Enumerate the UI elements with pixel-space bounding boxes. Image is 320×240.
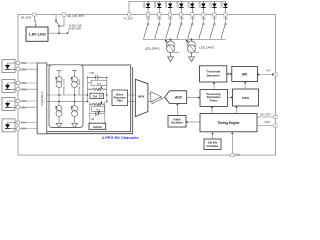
wire: col2 vertical <box>74 88 76 106</box>
wire: PIN1/NIN1 to input mux <box>20 63 38 69</box>
svg-text:LED6: LED6 <box>199 1 201 7</box>
LED D7 <box>212 1 216 13</box>
pin pad PIN2 <box>16 81 19 84</box>
wire: 128kHz osc to timing engine <box>212 133 214 139</box>
svg-text:2 PPG RX Channels: 2 PPG RX Channels <box>102 135 139 140</box>
wire: TIA feedback right rail <box>106 77 108 101</box>
ADC block <box>165 91 187 104</box>
wire: timing engine to FIFO <box>236 107 238 113</box>
svg-text:CB: CB <box>91 119 95 121</box>
lower feedback loop wires <box>90 102 105 124</box>
switch SW8 TX8 <box>221 16 226 39</box>
block: offset DAC rounded box <box>49 65 83 128</box>
pin pad CLK <box>231 154 234 157</box>
wire: threshold detection to SPI <box>227 73 232 75</box>
svg-text:Oscillator: Oscillator <box>207 144 219 148</box>
block: input mux strip <box>37 63 47 134</box>
svg-text:TX2: TX2 <box>157 18 162 21</box>
svg-text:LED1: LED1 <box>144 1 146 7</box>
svg-text:Input MUX: Input MUX <box>40 91 44 105</box>
svg-text:RX_SUP: RX_SUP <box>21 17 31 20</box>
wire: timing engine to GPIO pad <box>257 125 274 127</box>
pin pads TX1-TX8 <box>147 13 228 16</box>
mux trapezoid <box>135 79 148 116</box>
wire: timing engine to 6MHz osc <box>187 121 200 123</box>
svg-text:SPI: SPI <box>267 69 271 72</box>
current source LED_DRV2 <box>187 39 199 57</box>
pin pad PIN1 <box>16 61 19 64</box>
pin pad NIN2 <box>16 88 19 91</box>
wire: PIN4/NIN4 to input mux <box>20 123 38 129</box>
svg-text:Detection: Detection <box>207 73 220 77</box>
svg-text:NIN4: NIN4 <box>21 128 27 131</box>
LED D5 <box>190 1 194 13</box>
pin pad GPIO <box>274 124 277 127</box>
LED D6 <box>201 1 205 13</box>
wire: CLK pad to timing engine <box>231 133 233 153</box>
ground arrow LED_DRV2 <box>189 57 195 62</box>
svg-text:OFFDAC_LED1: OFFDAC_LED1 <box>62 79 65 95</box>
block: processing decimation filters <box>200 90 228 107</box>
svg-text:SPI: SPI <box>242 72 247 76</box>
svg-text:TX7: TX7 <box>212 18 217 21</box>
wire: col1 vertical <box>58 88 60 106</box>
wire: LED driver bus <box>143 38 226 40</box>
block: noise reduction filter <box>112 90 128 106</box>
svg-text:NIN1: NIN1 <box>21 68 27 71</box>
wire: timing engine to processing <box>211 108 213 114</box>
svg-text:ADC_RDY: ADC_RDY <box>260 113 271 116</box>
LED D4 <box>179 1 183 13</box>
op-amp TIA <box>90 93 104 98</box>
block: threshold detection <box>200 66 227 82</box>
node: DRV1 tap <box>170 39 172 41</box>
svg-text:LED2: LED2 <box>155 1 157 7</box>
pin pad NIN3 <box>16 106 19 109</box>
pin pad NIN4 <box>16 127 19 130</box>
ground arrow col2 <box>72 117 78 128</box>
switch SW7 TX7 <box>210 16 215 39</box>
current source LED_DRV1 <box>166 39 179 57</box>
wire: PIN2/NIN2 to input mux <box>20 83 38 89</box>
svg-text:FIFO: FIFO <box>242 96 250 100</box>
pin pad ADC_RDY <box>274 115 277 118</box>
wire: RX_SUP stub to LDO <box>34 16 35 27</box>
LED D1 <box>146 1 150 13</box>
svg-text:MUX: MUX <box>138 95 144 99</box>
svg-text:GPIO: GPIO <box>265 122 271 124</box>
switch SW5 TX5 <box>188 16 193 39</box>
oscillator 128 kHz <box>204 139 221 150</box>
chip outline <box>18 15 276 156</box>
current source OFFDAC2 top <box>72 77 78 88</box>
photodiode PD3 <box>2 97 17 110</box>
svg-text:TX4: TX4 <box>179 18 184 21</box>
svg-text:PIN3: PIN3 <box>21 100 27 103</box>
svg-text:TX5: TX5 <box>190 18 195 21</box>
svg-text:LED_DRV1: LED_DRV1 <box>145 47 160 51</box>
pin pad TX_SUP <box>127 13 130 16</box>
buffer amplifiers <box>148 94 151 102</box>
svg-text:LED7: LED7 <box>210 1 212 7</box>
svg-text:TX8: TX8 <box>223 18 228 21</box>
variable resistor R1 <box>88 88 107 91</box>
svg-text:AACB: AACB <box>93 125 102 129</box>
block: SPI <box>232 66 258 81</box>
svg-text:TX_SUP: TX_SUP <box>123 18 133 21</box>
current source OFFDAC1 top <box>56 77 62 88</box>
block: 2 PPG RX channels (stacked outline) <box>40 67 133 134</box>
wire: RX signal line P <box>47 94 88 96</box>
wire: PIN3/NIN3 to input mux <box>20 101 38 107</box>
wire: SPI to pad <box>257 74 274 76</box>
pin pad RX_SUP <box>33 13 36 16</box>
pin labels TX1-TX8 <box>146 18 228 21</box>
filter bank box <box>92 106 105 111</box>
svg-text:LED5: LED5 <box>188 1 190 7</box>
svg-text:LED3: LED3 <box>166 1 168 7</box>
LED D2 <box>157 1 161 13</box>
svg-text:LED4: LED4 <box>177 1 179 7</box>
svg-text:PIN4: PIN4 <box>21 122 27 125</box>
svg-text:NIN3: NIN3 <box>21 106 27 109</box>
pin pad EN_LDO_BYP <box>62 13 65 16</box>
svg-text:CLK: CLK <box>235 154 240 157</box>
supply rail col1 <box>57 70 62 76</box>
block: FIFO <box>233 89 259 106</box>
svg-text:Filters: Filters <box>210 99 218 103</box>
svg-text:DLDO_VIB: DLDO_VIB <box>69 28 82 31</box>
wire: LED anode rail from TX_SUP <box>129 1 226 13</box>
resistor bank box RFB <box>91 80 107 85</box>
capacitor CFB <box>88 76 107 78</box>
regulator U1 1.8V LDO <box>26 27 48 41</box>
ground arrow LED_DRV1 <box>168 57 174 62</box>
wire: NRF to MUX line P <box>128 94 136 96</box>
LED D8 <box>223 1 227 13</box>
svg-text:ADC: ADC <box>175 95 183 99</box>
switch S1 LDO bypass <box>55 15 57 20</box>
wire: LDO output net <box>48 32 68 34</box>
wire: FIFO to SPI <box>244 83 246 89</box>
svg-text:TX3: TX3 <box>168 18 173 21</box>
pin pad SPI <box>274 73 277 76</box>
switch SW3 TX3 <box>166 16 171 39</box>
ground arrow col1 <box>56 117 62 128</box>
photodiode PD1 <box>2 59 17 72</box>
svg-text:OFFDAC_AMB1: OFFDAC_AMB1 <box>78 78 81 95</box>
svg-text:PIN2: PIN2 <box>21 82 27 85</box>
variable resistor R2 <box>90 103 105 106</box>
svg-text:LED8: LED8 <box>222 1 224 7</box>
LED D3 <box>168 1 172 13</box>
photodiode PD4 <box>2 119 17 132</box>
svg-text:1.8V LDO: 1.8V LDO <box>29 33 47 37</box>
svg-text:Oscillator: Oscillator <box>171 121 183 125</box>
switch SW6 TX6 <box>199 16 204 39</box>
block AACB <box>89 123 106 129</box>
wire: ADC to processing <box>187 97 199 99</box>
variable capacitor CB2 <box>90 113 105 115</box>
svg-text:CFB: CFB <box>89 73 94 75</box>
svg-text:Timing Engine: Timing Engine <box>218 121 240 125</box>
wire: RX signal line N <box>47 101 88 103</box>
svg-text:RFB: RFB <box>97 83 102 85</box>
pin pad PIN4 <box>16 121 19 124</box>
pin pad NIN1 <box>16 68 19 71</box>
wire: processing to FIFO <box>228 97 232 99</box>
pin pad PIN3 <box>16 99 19 102</box>
current source OFFDAC2 bottom <box>72 106 78 117</box>
svg-text:NIN2: NIN2 <box>21 88 27 91</box>
block: timing engine <box>200 114 257 132</box>
wire: NRF to MUX line N <box>128 101 136 103</box>
node: DRV2 tap <box>191 39 193 41</box>
wire: timing engine to ADC_RDY pad <box>257 116 274 118</box>
wire: processing to threshold <box>213 83 215 89</box>
switch SW1 TX1 <box>144 16 149 39</box>
wire: 6MHz osc to ADC <box>176 105 178 116</box>
supply rail col2 <box>72 70 77 76</box>
svg-text:TX6: TX6 <box>201 18 206 21</box>
switch SW2 TX2 <box>155 16 160 39</box>
oscillator 6 MHz <box>168 116 186 128</box>
svg-text:EN_LDO_BYP: EN_LDO_BYP <box>68 15 85 18</box>
wire: EN_LDO_BYP to switch <box>59 16 64 33</box>
svg-text:Filter: Filter <box>117 100 123 103</box>
current source OFFDAC1 bottom <box>56 106 62 117</box>
switch SW4 TX4 <box>177 16 182 39</box>
svg-text:TIA: TIA <box>93 94 98 98</box>
svg-text:TX1: TX1 <box>146 18 151 21</box>
photodiode PD2 <box>2 79 17 92</box>
wire: TIA feedback left rail <box>87 77 89 101</box>
svg-text:LED_DRV2: LED_DRV2 <box>199 45 214 49</box>
svg-text:PIN1: PIN1 <box>21 62 27 65</box>
